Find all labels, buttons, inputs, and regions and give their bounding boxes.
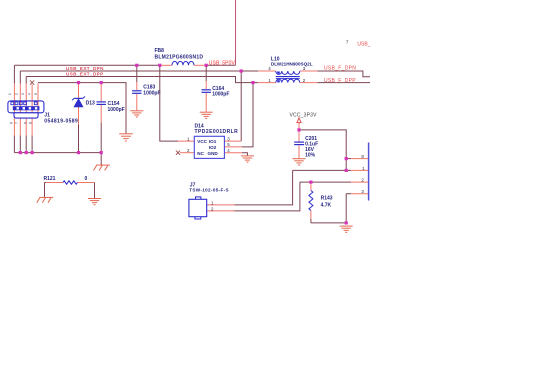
svg-text:R121: R121 [44, 176, 56, 182]
svg-text:VCC_3P3V: VCC_3P3V [290, 113, 318, 119]
svg-text:D13: D13 [86, 101, 95, 107]
svg-text:NC: NC [197, 151, 204, 156]
svg-text:IO1: IO1 [209, 139, 217, 144]
svg-text:USB_F_DPP: USB_F_DPP [324, 78, 356, 84]
svg-text:USB_EXT_DPN: USB_EXT_DPN [66, 66, 104, 71]
svg-text:IO2: IO2 [209, 145, 217, 150]
svg-text:USB_5P0V: USB_5P0V [209, 60, 236, 66]
svg-text:USB_: USB_ [357, 41, 370, 47]
svg-text:3: 3 [21, 93, 25, 95]
svg-text:VCC: VCC [197, 139, 207, 144]
svg-text:1: 1 [8, 93, 12, 95]
svg-text:USB_F_DPN: USB_F_DPN [324, 66, 356, 72]
svg-text:1000pF: 1000pF [108, 107, 125, 113]
svg-text:7: 7 [15, 122, 19, 124]
svg-text:10%: 10% [305, 153, 316, 159]
svg-text:8: 8 [28, 122, 32, 124]
svg-text:9: 9 [23, 122, 27, 124]
svg-text:BLM21PG600SN1D: BLM21PG600SN1D [155, 54, 204, 60]
svg-text:4.7K: 4.7K [321, 202, 332, 208]
svg-text:0: 0 [85, 176, 88, 182]
svg-text:GND: GND [208, 151, 219, 156]
svg-text:USB_EXT_DPP: USB_EXT_DPP [66, 71, 104, 76]
svg-text:4: 4 [28, 93, 32, 95]
svg-text:1000pF: 1000pF [143, 90, 160, 96]
svg-text:7: 7 [346, 40, 349, 45]
svg-text:TSW-102-05-F-S: TSW-102-05-F-S [189, 188, 229, 193]
svg-text:R143: R143 [321, 196, 333, 202]
svg-text:2: 2 [15, 93, 19, 95]
svg-text:6: 6 [10, 122, 14, 124]
svg-text:5: 5 [34, 93, 38, 95]
svg-text:DLW21HN900SQ2L: DLW21HN900SQ2L [271, 61, 313, 66]
svg-text:TPD2E001DRLR: TPD2E001DRLR [195, 129, 239, 135]
svg-text:1000pF: 1000pF [212, 91, 229, 97]
svg-text:054819-0589: 054819-0589 [44, 118, 78, 124]
svg-text:FB8: FB8 [155, 48, 165, 54]
